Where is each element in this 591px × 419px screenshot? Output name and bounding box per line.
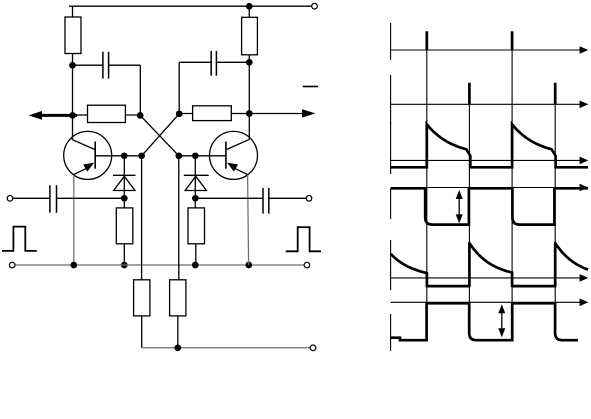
node: base VT2 / diode D2 junction [192, 152, 199, 159]
resistor Rk2 [242, 17, 258, 55]
node: base VT1 / cross-coupling junction [138, 152, 145, 159]
node: bias rail junction [174, 344, 181, 351]
wire: emitter VT2 to common rail [248, 175, 249, 265]
waveform row 4: collector VT1 square wave [391, 188, 588, 224]
axis: waveform row 4 (collector voltage VT1) [391, 184, 589, 219]
pulse spikes row 1 [427, 31, 512, 50]
output arrow: collector 1 output (thick, to left) [29, 111, 78, 120]
terminal: top supply [312, 3, 318, 9]
node: collector VT1 / C1 junction [69, 62, 76, 69]
node: C2 / Rb2 left junction [176, 110, 183, 117]
wire: rail stub to Rk1 [72, 6, 74, 17]
output arrow: collector 2 output (to right) [249, 109, 315, 117]
node: base VT1 / diode D1 junction [121, 152, 128, 159]
wire: Rk1 bottom to collector of VT1 [72, 54, 74, 140]
terminal: trigger input 1 [7, 196, 13, 202]
wire: base line VT2 [179, 155, 226, 157]
node: emitter VT1 on rail [70, 262, 77, 269]
resistor Rk1 [65, 17, 81, 54]
wire: base VT2 bias line down to Rbias2 [178, 156, 180, 280]
node: D2 anode / C input / Rd2 junction [192, 195, 199, 202]
axis: waveform row 1 (trigger input 1) [391, 23, 589, 60]
wire: bottom bias rail [142, 347, 311, 349]
node: collector VT2 / C2 junction [246, 59, 253, 66]
waveform row 5: base VT2 exponential recovery [391, 243, 588, 286]
grid line t3 [511, 50, 513, 303]
wire: cross-coupling diagonal from C2 to base VT1 [142, 114, 180, 156]
resistor Rd1 [116, 208, 133, 265]
capacitor Cin2 [195, 188, 306, 214]
waveform row 3: base VT1 exponential recovery [391, 124, 588, 167]
wire: emitter VT1 to common rail [73, 175, 75, 265]
resistor Rbias2 [170, 280, 186, 348]
grid line t4 [554, 104, 556, 302]
wire: Rk2 bottom to collector VT2 [248, 55, 250, 140]
resistor Rd2 [188, 208, 205, 265]
node: top rail junction to Rk2 [246, 3, 253, 10]
wire: Rk2 stub [248, 6, 250, 17]
node: collector VT2 / Rb2 / output junction [246, 110, 253, 117]
axis: waveform row 5 (base voltage VT2) [391, 240, 589, 290]
node: D1 anode / C input / Rd1 junction [121, 195, 128, 202]
terminal: rail left [9, 262, 15, 268]
transistor VT1 (PNP) [64, 131, 112, 179]
label: minus sign at output 2 [303, 86, 319, 88]
axis: waveform row 2 (trigger input 2) [391, 75, 589, 124]
node: emitter VT2 on rail [245, 262, 252, 269]
node: Rd1 to common rail [121, 262, 128, 269]
annotation: amplitude arrow row 6 [498, 304, 505, 337]
wire: common emitter rail [15, 264, 304, 266]
wire: base line VT1 [95, 155, 141, 157]
pulse spikes row 2 [469, 83, 555, 105]
pulse symbol: input 1 [2, 227, 37, 251]
capacitor C2 [179, 51, 249, 114]
terminal: rail right [304, 262, 310, 268]
axis: waveform row 6 (collector voltage VT2) [391, 299, 589, 352]
node: C1 / Rb1 right junction [137, 112, 144, 119]
node: collector VT1 / Rb1 / output junction [69, 112, 76, 119]
transistor VT2 (PNP) [210, 131, 258, 179]
resistor Rb1 [73, 105, 141, 122]
diode D2 [184, 156, 209, 208]
terminal: trigger input 2 [306, 196, 312, 202]
capacitor Cin1 [13, 185, 125, 213]
grid line t2 [468, 104, 470, 302]
wire: cross-coupling diagonal from C1 to base VT2 [140, 115, 179, 155]
resistor Rbias1 [134, 280, 150, 348]
wire: top supply rail [69, 5, 314, 7]
node: base VT2 / cross-coupling junction [175, 152, 182, 159]
annotation: amplitude arrow row 4 [456, 190, 463, 223]
grid line t1 [426, 50, 428, 303]
wire: base VT1 bias line down to Rbias1 [141, 156, 143, 280]
waveform row 6: collector VT2 square wave [391, 303, 578, 340]
terminal: bias supply [310, 345, 316, 351]
diode D1 [113, 156, 136, 208]
pulse symbol: input 2 [286, 227, 321, 251]
axis: waveform row 3 (base voltage VT1) [391, 123, 589, 175]
node: Rd2 on rail [192, 262, 199, 269]
resistor Rb2 [179, 106, 249, 121]
capacitor C1 [73, 52, 141, 116]
